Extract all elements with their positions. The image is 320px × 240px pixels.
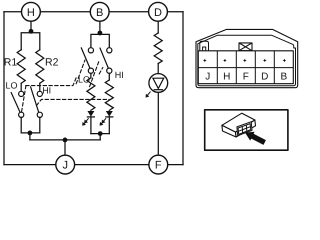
wire SW1 outputs bus: [21, 117, 40, 132]
pin letters J H F D B: [205, 71, 287, 82]
switch SW1-HI blade: [31, 87, 39, 113]
wire SW2 top bus: [91, 34, 109, 47]
svg-text:LO: LO: [6, 80, 18, 90]
svg-text:B: B: [280, 71, 287, 82]
wire B drop: [99, 21, 101, 34]
pin index stars: [203, 59, 286, 63]
svg-text:F: F: [243, 71, 249, 82]
wire D3 to F: [157, 92, 159, 155]
wire LED cathode bus: [91, 133, 109, 135]
svg-text:HI: HI: [42, 86, 51, 96]
terminal H: [22, 2, 41, 21]
resistor R1: [17, 50, 25, 84]
switch SW2-LO blade: [81, 48, 90, 68]
icon box frame: [205, 110, 288, 150]
LED D1 (LO indicator): [87, 111, 94, 117]
switch SW2-LO contact top: [88, 48, 93, 53]
connector pin table: [198, 51, 293, 84]
resistor R3 (illumination): [154, 33, 162, 64]
svg-text:R1: R1: [4, 56, 18, 68]
node LED bus junction: [98, 131, 103, 136]
svg-text:H: H: [27, 7, 35, 19]
wire LED D1 cathode: [90, 117, 92, 134]
resistor lamp-LO: [87, 78, 95, 111]
LED D3 (circled illumination LED): [149, 74, 168, 93]
connector lock tab box: [239, 43, 252, 51]
svg-text:H: H: [223, 71, 230, 82]
resistor lamp-HI: [105, 80, 113, 110]
terminal J: [56, 155, 75, 174]
wire bottom bus J-F: [4, 164, 183, 166]
switch SW2-HI contact top: [107, 48, 112, 53]
terminal B: [90, 2, 109, 21]
wire ground rail: [30, 139, 100, 141]
switch SW1-HI pivot: [37, 112, 42, 117]
wire LED bus drop: [99, 134, 101, 140]
terminal D: [149, 2, 168, 21]
svg-text:R2: R2: [45, 56, 59, 68]
svg-text:D: D: [261, 71, 268, 82]
LED D1 emission arrows: [82, 119, 88, 126]
wire SW2-HI to lamp resistor: [108, 73, 110, 80]
wire R3 to LED D3: [157, 64, 159, 74]
wire R2 to switch: [39, 83, 41, 91]
svg-text:J: J: [62, 160, 68, 172]
switch SW1-LO blade: [11, 93, 20, 113]
svg-text:D: D: [154, 7, 162, 19]
svg-text:HI: HI: [115, 70, 124, 80]
pin table horizontal divider: [198, 67, 293, 69]
wire left edge: [3, 12, 5, 165]
resistor R2: [36, 50, 44, 84]
pin table vertical dividers: [217, 51, 274, 84]
svg-text:B: B: [96, 7, 103, 19]
LED D3 emission arrow: [146, 92, 151, 98]
wire rail to J: [64, 140, 66, 155]
LED D2 (HI indicator): [106, 111, 113, 117]
connector housing inner wall: [198, 35, 296, 85]
switch SW1-LO pivot: [19, 112, 24, 117]
wire LED D2 cathode: [108, 117, 110, 134]
wire D drop: [157, 21, 159, 33]
wire H drop: [30, 21, 32, 33]
icon 3D connector body: [222, 113, 256, 137]
wire SW2-LO to lamp resistor: [90, 73, 92, 78]
svg-text:F: F: [155, 160, 162, 172]
linkage dashes left group to LO label: [22, 60, 109, 111]
connector housing outline: [196, 29, 298, 87]
wire R1 to switch: [20, 83, 22, 91]
connector clip detail: [200, 41, 209, 50]
switch SW1-HI contact top: [37, 91, 42, 96]
node junction below B: [98, 31, 103, 36]
node ground rail junction: [63, 138, 68, 143]
switch SW1-LO contact top: [19, 91, 24, 96]
LED D2 emission arrows: [100, 119, 106, 126]
node SW1 bus junction: [28, 131, 33, 136]
node junction below H: [29, 29, 34, 34]
terminal F: [149, 155, 168, 174]
svg-text:J: J: [205, 71, 210, 82]
switch SW2-LO pivot: [88, 68, 93, 73]
wire top bus H-B-D: [4, 11, 183, 13]
wire R1-R2 top bus: [21, 33, 40, 50]
wire SW1 bus to rail: [29, 133, 31, 140]
wire right edge: [182, 12, 184, 165]
switch SW2-HI blade: [100, 48, 108, 68]
icon connector pin block: [237, 122, 252, 136]
switch SW2-HI pivot: [107, 68, 112, 73]
icon arrow: [245, 132, 266, 145]
